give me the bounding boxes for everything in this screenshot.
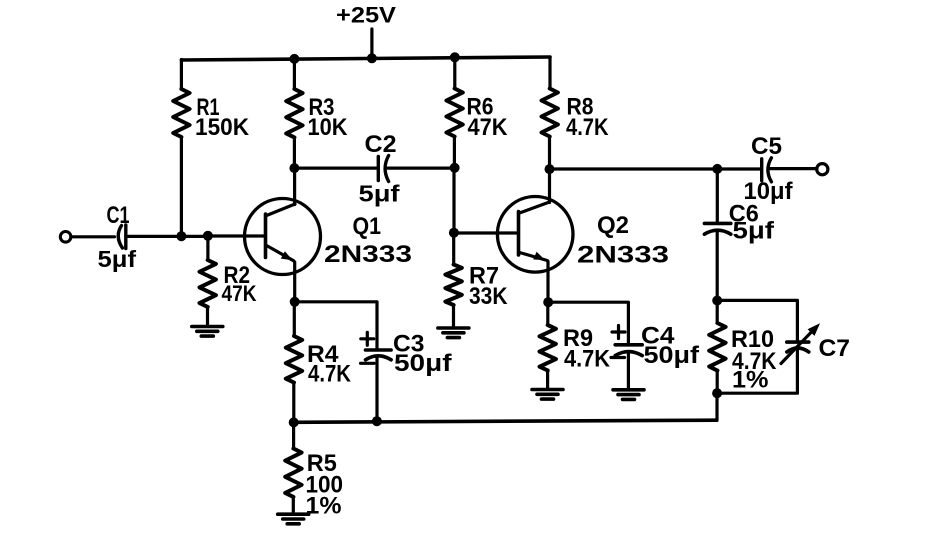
wire Q1 emitter node to C3 branch xyxy=(295,302,377,349)
wire top supply rail xyxy=(181,57,550,60)
transistor Q2 base bar xyxy=(517,212,521,256)
wire C6 to R10 top node xyxy=(716,232,719,300)
wire Q2 emitter lead xyxy=(546,262,549,303)
wire Q1 collector xyxy=(293,168,296,205)
wire Q1 base lead xyxy=(208,234,265,237)
svg-text:10K: 10K xyxy=(308,114,349,141)
node top rail at R3 xyxy=(289,54,299,64)
wire R5 branch xyxy=(292,422,295,448)
transistor Q2 emitter arrow xyxy=(533,252,545,260)
wire C4 to ground xyxy=(627,354,630,389)
capacitor C7 (variable) xyxy=(787,342,809,352)
wire C2 node to Q2 base node xyxy=(452,168,455,233)
wire R8 branch top xyxy=(548,57,551,89)
node top rail at R6 xyxy=(450,52,460,62)
wire R9 to ground xyxy=(546,371,549,389)
svg-text:Q2: Q2 xyxy=(597,212,629,239)
wire R8 to collector node xyxy=(548,137,551,170)
svg-text:4.7K: 4.7K xyxy=(308,360,352,387)
wire R10-C7 loop top xyxy=(717,300,797,341)
wire C2 left segment xyxy=(294,167,377,170)
wire C1 to base nodes xyxy=(126,235,208,238)
resistor R8 xyxy=(542,89,558,137)
node Q2 base xyxy=(449,228,459,238)
wire R3 to C2 node xyxy=(293,138,296,169)
resistor R5 xyxy=(285,449,301,497)
wire C2 right segment xyxy=(388,167,455,170)
node C5-C6 junction xyxy=(712,164,722,174)
svg-text:33K: 33K xyxy=(469,283,508,310)
wire R1 to input node xyxy=(180,137,183,236)
node Q2 emitter xyxy=(543,297,553,307)
transistor Q1 emitter arrow xyxy=(281,251,293,260)
node C2 right xyxy=(450,163,460,173)
node R10 bottom xyxy=(712,388,722,398)
ground at C4 xyxy=(613,390,644,400)
wire bottom node to bottom rail xyxy=(715,393,718,420)
svg-text:2N333: 2N333 xyxy=(577,241,669,268)
svg-text:50μf: 50μf xyxy=(644,342,701,369)
wire R6 branch top xyxy=(453,57,456,88)
transistor Q1 base bar xyxy=(264,214,268,258)
ground at R2 xyxy=(192,327,223,337)
capacitor C6 xyxy=(704,223,730,234)
wire C5 node to C6 xyxy=(716,169,719,222)
node Q2 collector xyxy=(545,164,555,174)
resistor R3 xyxy=(286,89,302,137)
wire Q2 emitter node to R9 xyxy=(546,302,549,325)
resistor R2 xyxy=(200,260,216,307)
svg-text:+25V: +25V xyxy=(336,2,396,27)
wire Q2 base from R6 branch xyxy=(454,231,518,234)
svg-text:150K: 150K xyxy=(195,114,250,141)
svg-text:2N333: 2N333 xyxy=(324,241,412,268)
transistor Q1 collector stroke xyxy=(267,204,296,216)
wire R2 to ground xyxy=(206,307,209,326)
wire Q1 emitter node to R4 xyxy=(293,302,296,336)
wire C5 to output terminal xyxy=(770,167,818,170)
svg-text:C7: C7 xyxy=(819,335,851,362)
capacitor C1 xyxy=(118,225,126,249)
node R10 top xyxy=(712,296,722,306)
transistor Q2 emitter stroke xyxy=(520,253,548,261)
svg-text:C2: C2 xyxy=(365,131,397,158)
node bottom rail at C3 xyxy=(372,416,382,426)
svg-text:1%: 1% xyxy=(306,493,342,520)
wire R3 branch top xyxy=(293,59,296,89)
transistor Q2 body xyxy=(497,197,573,273)
wire Q2 base node to R7 xyxy=(452,233,455,265)
capacitor C4 (electrolytic) xyxy=(615,345,642,356)
wire input terminal to C1 xyxy=(71,235,115,238)
wire R6 to C2 node xyxy=(453,137,456,168)
input terminal xyxy=(60,232,71,243)
node Q1 emitter xyxy=(290,297,300,307)
wire R1 branch top xyxy=(180,60,183,90)
svg-text:5μf: 5μf xyxy=(98,246,137,272)
svg-text:47K: 47K xyxy=(468,114,509,141)
capacitor C7 adjustment arrow xyxy=(781,323,820,363)
node top rail at +25V lead xyxy=(367,53,377,63)
capacitor C5 xyxy=(762,158,772,182)
wire R10 to bottom node xyxy=(716,371,719,394)
svg-text:C1: C1 xyxy=(107,202,130,229)
wire R4 to bottom rail xyxy=(292,383,295,423)
wire R5 to ground xyxy=(292,497,295,514)
capacitor C3 polarity marks xyxy=(361,332,375,363)
svg-text:1%: 1% xyxy=(732,367,769,394)
wire +25V supply lead xyxy=(370,29,373,59)
resistor R7 xyxy=(445,265,461,306)
wire R7 to ground xyxy=(452,305,455,328)
wire C3 to bottom rail xyxy=(375,357,378,421)
ground at R7 xyxy=(438,328,469,338)
svg-text:Q1: Q1 xyxy=(353,213,382,240)
svg-text:C5: C5 xyxy=(751,133,782,160)
node C2 left xyxy=(289,163,299,173)
ground at R9 xyxy=(532,390,563,400)
wire R10 top node from C6 xyxy=(716,300,719,323)
node bottom rail at R5 xyxy=(289,417,299,427)
svg-text:47K: 47K xyxy=(222,281,257,306)
node input at R2 xyxy=(203,231,213,241)
resistor R10 xyxy=(709,323,725,371)
svg-text:50μf: 50μf xyxy=(394,350,453,377)
capacitor C3 (electrolytic) xyxy=(366,350,392,360)
wire collector node to C5 node xyxy=(550,167,718,170)
resistor R6 xyxy=(446,89,462,137)
wire bottom rail xyxy=(294,420,717,422)
transistor Q2 collector stroke xyxy=(520,202,550,213)
node input at R1 xyxy=(176,231,186,241)
transistor Q1 emitter stroke xyxy=(267,246,294,261)
wire C7 to loop bottom xyxy=(717,350,797,393)
ground at R5 xyxy=(278,514,309,524)
wire R2 branch xyxy=(206,236,209,260)
output terminal xyxy=(817,164,828,175)
resistor R9 xyxy=(540,325,556,370)
wire C5 node to C5 xyxy=(717,167,760,170)
wire Q2 emitter node to C4 branch xyxy=(548,302,628,343)
capacitor C4 polarity marks xyxy=(611,326,625,358)
transistor Q1 body xyxy=(245,199,321,275)
resistor R4 xyxy=(286,336,302,383)
svg-text:4.7K: 4.7K xyxy=(566,114,609,141)
svg-text:4.7K: 4.7K xyxy=(564,346,611,373)
svg-text:5μf: 5μf xyxy=(733,217,776,244)
wire Q1 emitter lead xyxy=(293,262,296,302)
svg-text:5μf: 5μf xyxy=(359,181,400,207)
wire Q2 collector xyxy=(548,169,551,203)
capacitor C2 xyxy=(378,156,388,182)
resistor R1 xyxy=(173,89,189,137)
